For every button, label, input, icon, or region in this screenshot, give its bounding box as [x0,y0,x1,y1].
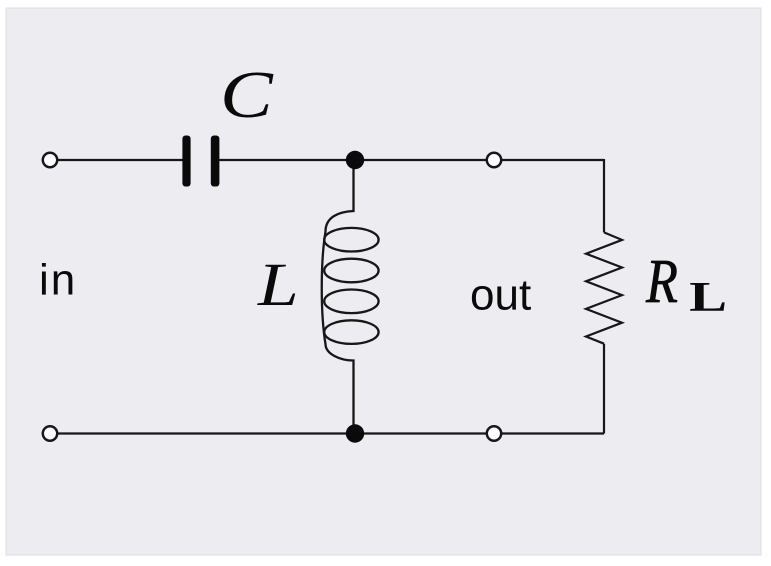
svg-text:L: L [689,274,727,320]
wire top rail: capacitor to right corner [217,159,604,161]
svg-text:C: C [220,58,274,132]
capacitor C plates [182,136,219,187]
wire bottom rail [50,432,604,434]
node junction dot bottom [346,424,364,442]
node junction dot top [346,151,364,169]
svg-text:L: L [257,251,299,319]
svg-text:in: in [39,256,77,305]
terminal out+ (open circle top right) [487,153,501,167]
svg-text:R: R [645,248,678,316]
terminal in+ (open circle top left) [43,153,57,167]
terminal out- (open circle bottom right) [487,426,501,440]
wire top rail: left terminal to capacitor [50,159,184,161]
inductor L (coil with 4 loops) [322,160,379,434]
wire: right branch down to resistor [603,159,605,232]
svg-text:out: out [470,271,531,320]
terminal in- (open circle bottom left) [43,426,57,440]
resistor RL zigzag [586,232,622,343]
wire: resistor bottom to bottom rail corner [603,344,605,434]
